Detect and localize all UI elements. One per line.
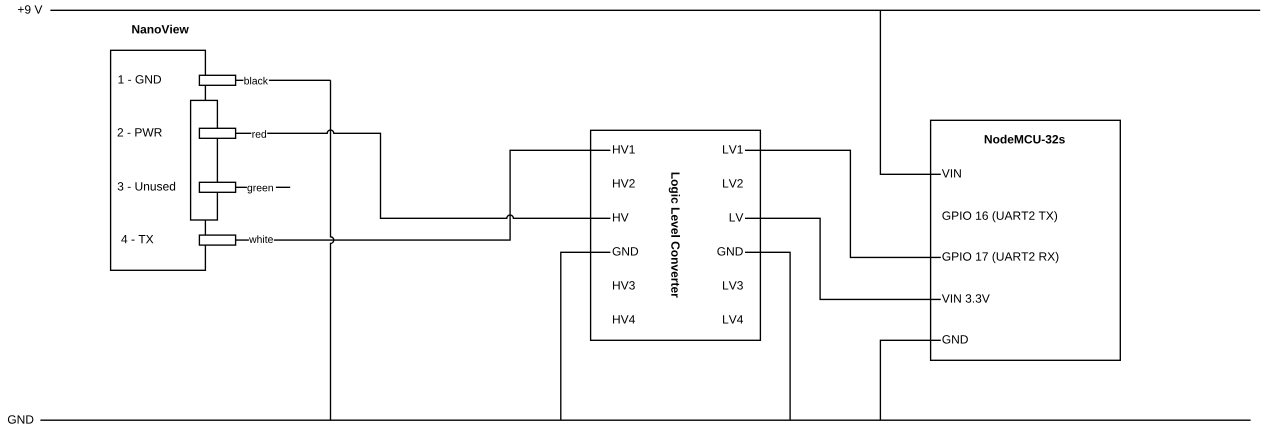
pin GND bbox=[942, 335, 967, 344]
pin label 2 - PWR bbox=[118, 128, 162, 136]
wire LV to VIN 3.3V bbox=[745, 218, 941, 299]
pin GND right bbox=[717, 247, 742, 256]
pin LV4 bbox=[723, 315, 743, 323]
pin 3 terminal bbox=[199, 182, 235, 192]
pin LV3 bbox=[723, 281, 743, 290]
wire converter GND right to GND rail bbox=[745, 252, 790, 420]
pin HV bbox=[613, 213, 629, 221]
pin 2 terminal bbox=[199, 128, 235, 138]
pin VIN 3.3V bbox=[942, 294, 990, 303]
pin GND left bbox=[613, 247, 638, 256]
wire NodeMCU GND to GND rail bbox=[880, 340, 940, 420]
pin HV2 bbox=[613, 179, 635, 187]
wire label black background bbox=[243, 74, 269, 86]
wire red: pin2 to HV, hops black and white verticals bbox=[236, 130, 611, 218]
wire white: pin4 to HV1 bbox=[236, 150, 611, 240]
pin VIN bbox=[942, 169, 961, 177]
pin 4 terminal bbox=[199, 235, 235, 245]
wire label green background bbox=[247, 181, 276, 193]
net label GND bbox=[8, 415, 33, 424]
wire green stub: pin3 unused bbox=[236, 186, 291, 188]
label NanoView bbox=[132, 25, 189, 34]
net label +9 V bbox=[18, 5, 42, 14]
pin LV1 bbox=[723, 145, 743, 153]
pin HV1 bbox=[613, 145, 635, 153]
pin HV3 bbox=[613, 281, 635, 290]
pin label 1 - GND bbox=[119, 75, 162, 84]
wire label red background bbox=[251, 127, 267, 139]
wire label green bbox=[247, 186, 272, 194]
wire converter GND left to GND rail bbox=[561, 252, 611, 420]
wire label red bbox=[252, 130, 266, 138]
pin GPIO 17 (UART2 RX) bbox=[942, 252, 1058, 263]
label Logic Level Converter (vertical) bbox=[669, 173, 680, 298]
pin 1 terminal bbox=[199, 75, 235, 85]
J1 housing rectangle bbox=[191, 100, 218, 220]
pin LV bbox=[730, 213, 744, 221]
module U2 NodeMCU-32s body bbox=[931, 120, 1121, 360]
wire label black bbox=[244, 77, 268, 85]
converter U1 body bbox=[591, 130, 761, 340]
pin label 4 - TX bbox=[121, 235, 153, 243]
+9V power rail bbox=[50, 9, 1260, 11]
wire label white bbox=[249, 235, 273, 243]
connector J1 NanoView body bbox=[111, 50, 206, 270]
wire LV1 to GPIO17 bbox=[745, 150, 941, 257]
wire black: pin1 to GND rail, hops white wire bbox=[236, 80, 334, 420]
pin HV4 bbox=[613, 315, 635, 323]
wire label white background bbox=[249, 234, 274, 246]
pin LV2 bbox=[723, 179, 743, 187]
label NodeMCU-32s bbox=[985, 135, 1065, 144]
pin GPIO 16 (UART2 TX) bbox=[942, 211, 1057, 222]
wire +9V rail to VIN bbox=[880, 10, 940, 174]
GND rail bbox=[40, 419, 1250, 421]
pin label 3 - Unused bbox=[118, 182, 175, 191]
